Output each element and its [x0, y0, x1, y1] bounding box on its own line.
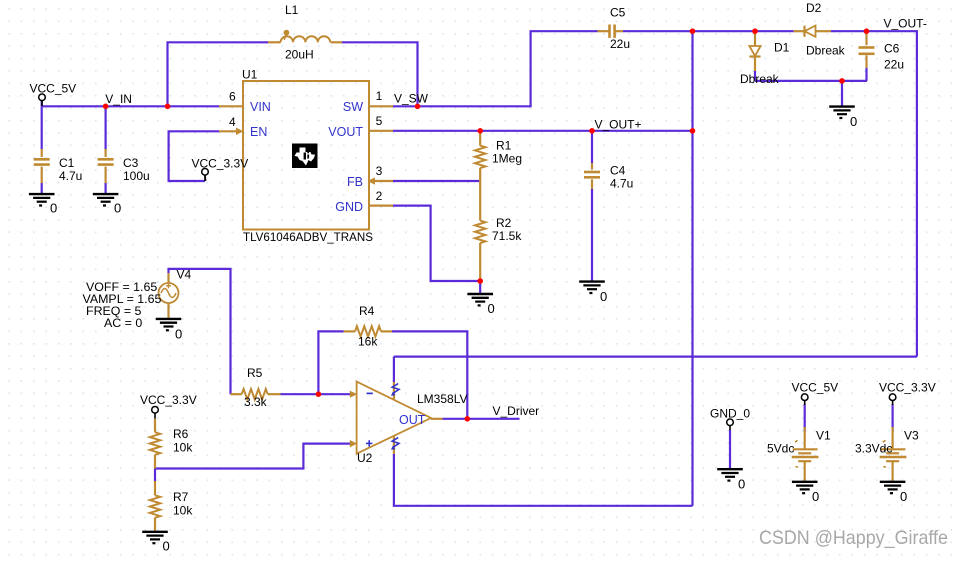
svg-text:71.5k: 71.5k — [492, 229, 522, 243]
svg-text:VCC_3.3V: VCC_3.3V — [879, 381, 936, 395]
power GND_0 — [710, 407, 750, 431]
svg-text:C4: C4 — [610, 164, 626, 178]
svg-text:0: 0 — [163, 539, 170, 554]
svg-text:22u: 22u — [884, 58, 904, 72]
resistor R7 — [150, 481, 160, 532]
wire R2 gnd stub — [479, 281, 481, 294]
label V1 — [767, 428, 831, 455]
power VCC_3.3V at EN — [192, 156, 249, 181]
op-amp U2 LM358LV body — [357, 382, 431, 454]
svg-text:FB: FB — [347, 175, 363, 189]
wire VCC_5V stub — [41, 101, 43, 107]
ground 0 below R7 — [142, 532, 170, 554]
wire opamp V+ riser — [393, 357, 395, 382]
capacitor C3 — [98, 149, 114, 183]
label R1 — [492, 139, 522, 166]
ground 0 below GND_0 — [717, 469, 745, 491]
label C1 — [59, 156, 82, 183]
pin + input U2 — [350, 440, 373, 447]
label TLV61046ADBV_TRANS — [243, 231, 373, 244]
svg-text:4.7u: 4.7u — [59, 169, 82, 183]
junction V_OUT+ C4 — [589, 128, 595, 134]
label V4 params — [83, 280, 162, 330]
wire D1 bottom — [754, 71, 756, 81]
wire L1 right to SW — [342, 42, 418, 106]
node V_SW — [394, 92, 429, 106]
power VCC_5V at V1 — [792, 381, 839, 405]
power VCC_3.3V at R6 — [140, 393, 197, 419]
junction D1 top — [752, 28, 758, 34]
svg-text:2: 2 — [376, 189, 383, 203]
junction OUT R4 — [465, 416, 471, 422]
svg-text:0: 0 — [738, 477, 745, 492]
svg-text:V_OUT-: V_OUT- — [884, 17, 927, 31]
svg-text:R7: R7 — [173, 490, 189, 504]
pin name GND — [335, 200, 363, 214]
wire R5 to opamp — [281, 393, 351, 395]
wire L1 left riser — [168, 42, 269, 106]
label R4 — [358, 304, 378, 349]
label R5 — [244, 366, 268, 409]
junction V_OUT+ rail — [690, 128, 696, 134]
pin name SW — [343, 100, 363, 114]
wire mid long — [394, 356, 917, 358]
svg-text:VCC_5V: VCC_5V — [30, 81, 77, 95]
ground 0 below V4 — [156, 319, 183, 342]
svg-text:Dbreak: Dbreak — [806, 44, 846, 58]
svg-text:10k: 10k — [173, 504, 193, 518]
capacitor C5 — [598, 25, 624, 38]
svg-text:D1: D1 — [774, 41, 790, 55]
pin - input U2 — [350, 391, 373, 398]
svg-text:V_OUT+: V_OUT+ — [595, 117, 642, 131]
label U1 — [242, 68, 258, 82]
pin name VIN — [250, 100, 271, 114]
node V_OUT+ — [595, 117, 642, 131]
wire C5 right — [623, 30, 794, 32]
wire plus input route — [155, 444, 351, 469]
source V3 VDC — [880, 404, 907, 482]
label D2 — [806, 1, 846, 58]
label U2 — [357, 451, 373, 465]
junction V_SW — [415, 104, 421, 110]
watermark CSDN — [759, 527, 948, 549]
svg-text:0: 0 — [850, 114, 857, 129]
svg-text:R5: R5 — [247, 366, 263, 380]
junction C5 out — [690, 28, 696, 34]
svg-text:1: 1 — [376, 89, 383, 103]
label OUT — [399, 413, 426, 427]
wire R4 left branch — [318, 331, 343, 394]
junction V_OUT- C6 — [864, 28, 870, 34]
svg-text:OUT: OUT — [399, 413, 426, 427]
ground 0 below V3 — [880, 482, 907, 504]
pin 5 VOUT stub — [369, 114, 393, 131]
svg-text:VCC_5V: VCC_5V — [792, 381, 839, 395]
pin 4 EN stub — [219, 115, 244, 135]
wire V4 top route — [169, 269, 231, 394]
pin OUT stub U2 — [431, 418, 442, 420]
inductor L1 — [268, 30, 342, 43]
svg-text:V3: V3 — [904, 428, 919, 442]
pin 6 VIN stub — [219, 90, 243, 107]
svg-text:1Meg: 1Meg — [492, 151, 522, 165]
svg-text:VCC_3.3V: VCC_3.3V — [192, 156, 249, 170]
svg-text:VOUT: VOUT — [328, 125, 363, 139]
wire VOUT+ vertical — [691, 31, 693, 506]
node V_IN — [105, 92, 132, 106]
ground 0 below C4 — [579, 282, 607, 304]
label V3 — [855, 428, 919, 455]
wire EN loop — [169, 131, 219, 181]
svg-text:0: 0 — [812, 489, 819, 504]
wire C4 bottom — [591, 189, 593, 282]
ground 0 below V1 — [792, 482, 819, 504]
power VCC_5V top-left — [30, 81, 77, 106]
ground 0 top-right — [829, 107, 857, 129]
wire C3 bottom — [104, 183, 106, 194]
label C5 — [610, 5, 630, 51]
diode D1 Dbreak — [749, 31, 760, 71]
TI logo U1 — [292, 144, 318, 169]
pin V+ power U2 — [391, 382, 399, 400]
svg-text:4: 4 — [229, 115, 236, 129]
svg-text:LM358LV: LM358LV — [417, 392, 467, 406]
svg-text:TLV61046ADBV_TRANS: TLV61046ADBV_TRANS — [243, 231, 373, 244]
diode D2 Dbreak — [794, 26, 831, 37]
svg-text:3.3Vdc: 3.3Vdc — [855, 441, 892, 455]
svg-text:22u: 22u — [610, 37, 630, 51]
ground 0 below C1 — [29, 194, 57, 215]
junction V_IN C3 — [103, 104, 109, 110]
label R6 — [173, 427, 193, 455]
svg-text:V_SW: V_SW — [394, 92, 429, 106]
svg-text:3: 3 — [376, 164, 383, 178]
IC U1 TLV61046ADBV body — [243, 81, 369, 230]
svg-text:C3: C3 — [123, 156, 139, 170]
svg-text:R6: R6 — [173, 427, 189, 441]
svg-text:10k: 10k — [173, 441, 193, 455]
wire gnd stub top-right — [841, 81, 843, 107]
label LM358LV — [417, 392, 467, 406]
pin 1 SW stub — [369, 89, 393, 106]
pin name FB — [347, 175, 363, 189]
label C4 — [610, 164, 633, 191]
svg-text:V_Driver: V_Driver — [493, 404, 540, 418]
node V_OUT- — [884, 17, 927, 31]
ground 0 below C3 — [93, 194, 121, 215]
svg-text:0: 0 — [488, 301, 495, 316]
wire C1 top — [41, 106, 43, 149]
resistor R6 — [150, 419, 160, 469]
junction R1 top — [477, 128, 483, 134]
ground 0 below R2 — [467, 294, 494, 316]
svg-text:U2: U2 — [357, 451, 373, 465]
wire D1 gnd rail — [755, 80, 867, 82]
node V_Driver — [493, 404, 540, 418]
svg-text:0: 0 — [600, 289, 607, 304]
junction R5 R4 — [316, 391, 322, 397]
resistor R4 — [344, 326, 392, 336]
svg-text:GND: GND — [335, 200, 363, 214]
pin name VOUT — [328, 125, 363, 139]
wire V_IN rail — [42, 105, 219, 107]
junction V_IN L1 — [165, 104, 171, 110]
svg-text:C6: C6 — [884, 42, 900, 56]
label R7 — [173, 490, 193, 518]
wire GND_0 stub — [729, 430, 731, 469]
svg-text:Dbreak: Dbreak — [740, 72, 780, 86]
junction D1 gnd — [839, 78, 845, 84]
svg-text:C5: C5 — [610, 5, 626, 19]
svg-text:C1: C1 — [59, 156, 75, 170]
wire OUT line — [442, 418, 519, 420]
svg-text:L1: L1 — [285, 3, 299, 17]
wire C1 bottom — [41, 183, 43, 194]
wire C4 top — [591, 131, 593, 163]
svg-text:0: 0 — [900, 489, 907, 504]
capacitor C1 — [34, 149, 50, 183]
svg-text:VCC_3.3V: VCC_3.3V — [140, 393, 197, 407]
svg-text:EN: EN — [250, 125, 267, 139]
wire R4 right branch — [392, 331, 467, 418]
svg-text:16k: 16k — [358, 335, 378, 349]
wire GND pin2 route — [393, 206, 480, 281]
label V4 — [177, 268, 192, 282]
svg-text:4.7u: 4.7u — [610, 177, 633, 191]
svg-text:6: 6 — [229, 90, 236, 104]
label D1 — [740, 41, 790, 87]
svg-text:SW: SW — [343, 100, 363, 114]
wire SW line — [393, 31, 598, 106]
power VCC_3.3V at V3 — [879, 381, 936, 405]
capacitor C6 — [859, 31, 875, 67]
pin 2 GND stub — [369, 189, 393, 206]
capacitor C4 — [584, 163, 600, 189]
resistor R1 — [475, 132, 485, 182]
svg-text:V1: V1 — [816, 428, 831, 442]
label L1 — [285, 3, 314, 62]
svg-text:0: 0 — [175, 327, 182, 342]
svg-text:20uH: 20uH — [285, 48, 314, 62]
svg-text:100u: 100u — [123, 169, 150, 183]
svg-text:R4: R4 — [359, 304, 375, 318]
junction R2 gnd — [477, 278, 483, 284]
resistor R5 — [231, 389, 281, 399]
svg-text:VIN: VIN — [250, 100, 271, 114]
svg-text:CSDN @Happy_Giraffe: CSDN @Happy_Giraffe — [759, 527, 948, 549]
wire FB line — [393, 180, 480, 182]
wire C3 top — [104, 106, 106, 149]
svg-text:V4: V4 — [177, 268, 192, 282]
source V1 VDC — [792, 404, 819, 482]
svg-text:AC = 0: AC = 0 — [104, 316, 142, 330]
svg-text:D2: D2 — [806, 1, 822, 15]
pin V- power U2 — [391, 437, 399, 455]
source V4 VSIN — [159, 273, 179, 319]
pin 3 FB stub — [368, 164, 394, 185]
svg-text:5Vdc: 5Vdc — [767, 441, 794, 455]
label C6 — [884, 42, 904, 72]
svg-text:3.3k: 3.3k — [244, 395, 268, 409]
wire D2 to V_OUT- — [831, 31, 917, 356]
svg-text:5: 5 — [376, 114, 383, 128]
wire C6 bottom — [865, 68, 867, 81]
wire VCC_3.3V stub U1 — [204, 175, 206, 182]
wire R6 junction stub — [154, 469, 156, 482]
resistor R2 — [475, 181, 485, 281]
svg-text:0: 0 — [50, 201, 57, 216]
label R2 — [492, 216, 522, 243]
svg-text:R2: R2 — [496, 216, 512, 230]
svg-text:U1: U1 — [242, 68, 258, 82]
label C3 — [123, 156, 150, 183]
svg-text:0: 0 — [114, 201, 121, 216]
wire opamp V- route — [394, 454, 693, 506]
pin name EN — [250, 125, 267, 139]
svg-text:V_IN: V_IN — [105, 92, 132, 106]
wire VOUT line — [393, 130, 693, 132]
